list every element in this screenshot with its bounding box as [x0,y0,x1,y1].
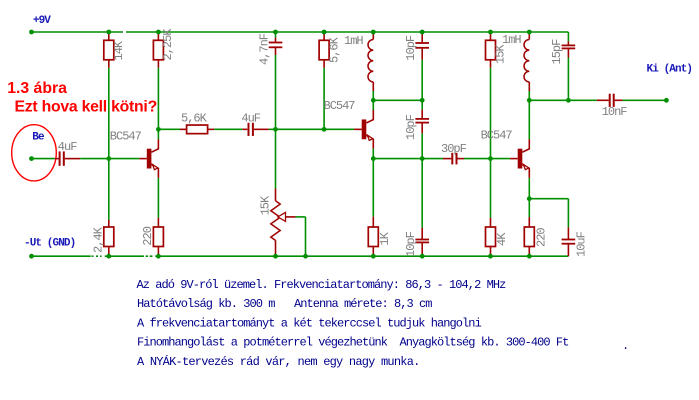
node base Q2 / R7 [322,127,327,132]
svg-text:10pF: 10pF [404,114,418,140]
capacitor C3 4,7nF [275,32,277,38]
capacitor C2 4uF coupling [242,128,247,130]
node GND / R11 [527,254,532,259]
svg-text:15pF: 15pF [550,39,564,65]
svg-text:1K: 1K [378,231,392,245]
svg-text:Hatótávolság kb. 300 m: Hatótávolság kb. 300 m [137,297,275,311]
wire base node down to 4K [490,159,492,218]
svg-text:Az adó 9V-ról üzemel. Frekvenc: Az adó 9V-ról üzemel. Frekvenciatartomán… [137,278,507,292]
svg-text:10pF: 10pF [404,35,418,61]
node collector Q2 [371,98,376,103]
wire wiper to GND drop [296,216,306,218]
node power rail / R1 [106,30,111,35]
node GND terminal [29,254,34,259]
svg-text:4K: 4K [495,232,509,246]
svg-text:4,7nF: 4,7nF [258,33,272,65]
node +9V terminal [29,30,34,35]
svg-text:4uF: 4uF [241,111,260,125]
wire output row [529,99,568,101]
wire collector node to Q2 [372,100,374,110]
svg-text:220: 220 [535,228,549,247]
wire GND rail [32,255,569,257]
wire collector row Q2 [373,99,422,101]
wire emitter Q1 down [157,178,159,218]
resistor R2 2,4K [108,220,110,227]
wire emitter Q3 row to 10uF [529,198,568,200]
node power rail / L2 [527,30,532,35]
node power rail / R3 [156,30,161,35]
wire R1 to base node [108,68,110,159]
node power rail / L1 [371,30,376,35]
node power rail / R7 [322,30,327,35]
wire R9 down to base node Q3 [490,68,492,159]
node GND / R10 [488,254,493,259]
wire R3 to collector node Q1 [157,68,159,130]
node input terminal Be [29,156,34,161]
wire Be terminal to C1 [32,158,55,160]
wire collector node down to Q3 [528,100,530,139]
svg-text:10uF: 10uF [574,231,588,257]
potentiometer P1 15K [275,189,277,201]
svg-text:Be: Be [32,131,45,143]
svg-text:220: 220 [141,226,155,245]
wire base node to R 2,4K [108,159,110,220]
potentiometer wiper arrow [278,212,286,221]
node GND / R2 [106,254,111,259]
svg-text:BC547: BC547 [324,99,356,113]
wire base node to Q1 base [109,158,139,160]
node tank mid [420,156,425,161]
capacitor C1 4uF input [55,158,59,160]
resistor R9 15K [490,32,492,40]
svg-text:A NYÁK-tervezés rád vár, nem e: A NYÁK-tervezés rád vár, nem egy nagy mu… [137,354,420,369]
wire C1 to base node [80,158,109,160]
node emitter Q3 [527,196,532,201]
svg-text:1mH: 1mH [344,34,363,48]
svg-text:4uF: 4uF [58,140,77,154]
wire C3 to node [275,55,277,129]
input port ellipse Be [12,125,57,181]
wire emitter node down to 220 [528,199,530,217]
node base divider Q1 [106,156,111,161]
wire emitter node down to 1K [372,159,374,217]
node GND / R4 [156,254,161,259]
wire C2 to node [269,128,276,130]
node emitter Q2 [371,156,376,161]
svg-text:2,25K: 2,25K [161,28,175,61]
node power rail / R9 [488,30,493,35]
wire base node to Q3 [491,158,511,160]
svg-text:Ki (Ant): Ki (Ant) [647,63,693,75]
svg-text:2,4K: 2,4K [92,226,106,253]
wire C9 to antenna terminal [623,99,667,101]
svg-text:14K: 14K [112,40,126,60]
wire emitter Q3 to node [528,178,530,199]
resistor R8 1K [372,217,374,227]
node junction C2 / C3 / pot [273,127,278,132]
svg-text:Ezt hova kell kötni?: Ezt hova kell kötni? [15,98,157,115]
node output terminal Ki [664,98,669,103]
wire R7 to base node Q2 [323,68,325,130]
capacitor C7 30pF [443,158,451,160]
resistor R5 5,6K horizontal [180,128,187,130]
wire to Q2 base [324,128,354,130]
node collector Q1 [156,127,161,132]
node GND / R8 [371,254,376,259]
wire C7 to base node Q3 [464,158,491,160]
wire node down to pot [275,129,277,188]
wire emitter Q2 to node [372,149,374,159]
transistor Q1 BC547 [147,149,152,169]
svg-text:15K: 15K [259,195,273,215]
svg-text:.: . [622,339,628,353]
wire node to base Q2 segment [276,128,325,130]
svg-text:-Ut (GND): -Ut (GND) [24,238,75,250]
node collector Q3 / output [527,98,532,103]
svg-text:10nF: 10nF [602,105,628,119]
capacitor C10 10uF [567,227,569,239]
svg-text:5,6K: 5,6K [328,36,342,63]
svg-text:1mH: 1mH [502,33,521,47]
svg-text:5,6K: 5,6K [181,111,208,125]
svg-text:1.3 ábra: 1.3 ábra [7,80,67,97]
node GND / C6 [420,254,425,259]
wire collector node to R5 [158,128,180,130]
resistor R11 220 [528,217,530,227]
transistor Q3 BC547 [518,149,523,169]
svg-text:30pF: 30pF [441,142,467,156]
node GND / wiper [303,254,308,259]
svg-text:BC547: BC547 [110,129,142,143]
inductor L1 1mH [372,32,374,40]
wire +9V power rail [32,31,569,33]
wire gap artifacts on power rail [123,31,126,34]
svg-text:BC547: BC547 [481,128,513,142]
transistor Q2 BC547 [362,119,367,139]
svg-text:A frekvenciatartományt a két t: A frekvenciatartományt a két tekerccsel … [137,316,482,330]
capacitor C5 10pF [421,100,423,109]
node power rail / C4 [420,30,425,35]
resistor R4 220 [157,218,159,227]
inductor L2 1mH [528,32,530,40]
svg-text:Antenna mérete: 8,3 cm: Antenna mérete: 8,3 cm [294,297,432,311]
capacitor C6 10pF [421,159,423,228]
resistor R1 14K [108,32,110,40]
wire R5 to C2 [214,128,242,130]
wire emitter row Q2 [373,158,422,160]
svg-text:+9V: +9V [33,15,51,27]
resistor R3 2,25K [157,32,159,40]
node tank top [420,98,425,103]
resistor R10 4K [490,218,492,227]
wire tank mid to C7 [422,158,443,160]
capacitor C4 10pF [421,32,423,43]
node GND / pot [273,254,278,259]
wire gap artifacts on GND rail [91,255,105,258]
svg-text:Finomhangolást a potméterrel v: Finomhangolást a potméterrel végezhetünk… [137,336,568,350]
node power rail / C3 [273,30,278,35]
wire collector node to Q1 [157,129,159,139]
capacitor C8 15pF [567,32,569,41]
node base Q3 [488,156,493,161]
svg-text:10pF: 10pF [404,231,418,257]
resistor R7 5,6K [323,32,325,40]
capacitor C9 10nF output [597,99,609,101]
node output row / C8 [566,98,571,103]
